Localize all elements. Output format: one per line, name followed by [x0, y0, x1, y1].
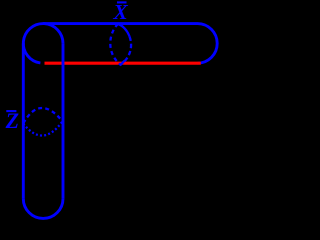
label Z overbar	[6, 110, 16, 112]
vertical tube right edge	[62, 43, 65, 198]
vertical tube left edge	[22, 43, 25, 198]
elbow end-cap circle (3/4, lower-right quadrant omitted)	[23, 24, 63, 63]
cross-section Z lens, top dashed arc	[23, 108, 62, 124]
cross-section X lens, bottom tip solid stub	[120, 61, 125, 66]
cross-section X lens, right arc solid upper part	[118, 24, 130, 37]
svg-text:X: X	[112, 0, 128, 24]
cross-section X lens, left dashed arc	[110, 24, 120, 65]
horizontal tube right cap	[198, 24, 218, 64]
label X overbar	[117, 1, 127, 3]
red line (horizontal tube bottom edge)	[45, 62, 201, 65]
cross-section Z lens, bottom dotted arc	[23, 121, 62, 135]
vertical tube bottom cap	[23, 199, 63, 219]
cross-section X lens, right arc dashed lower part	[121, 37, 132, 65]
horizontal tube top edge	[43, 22, 197, 25]
